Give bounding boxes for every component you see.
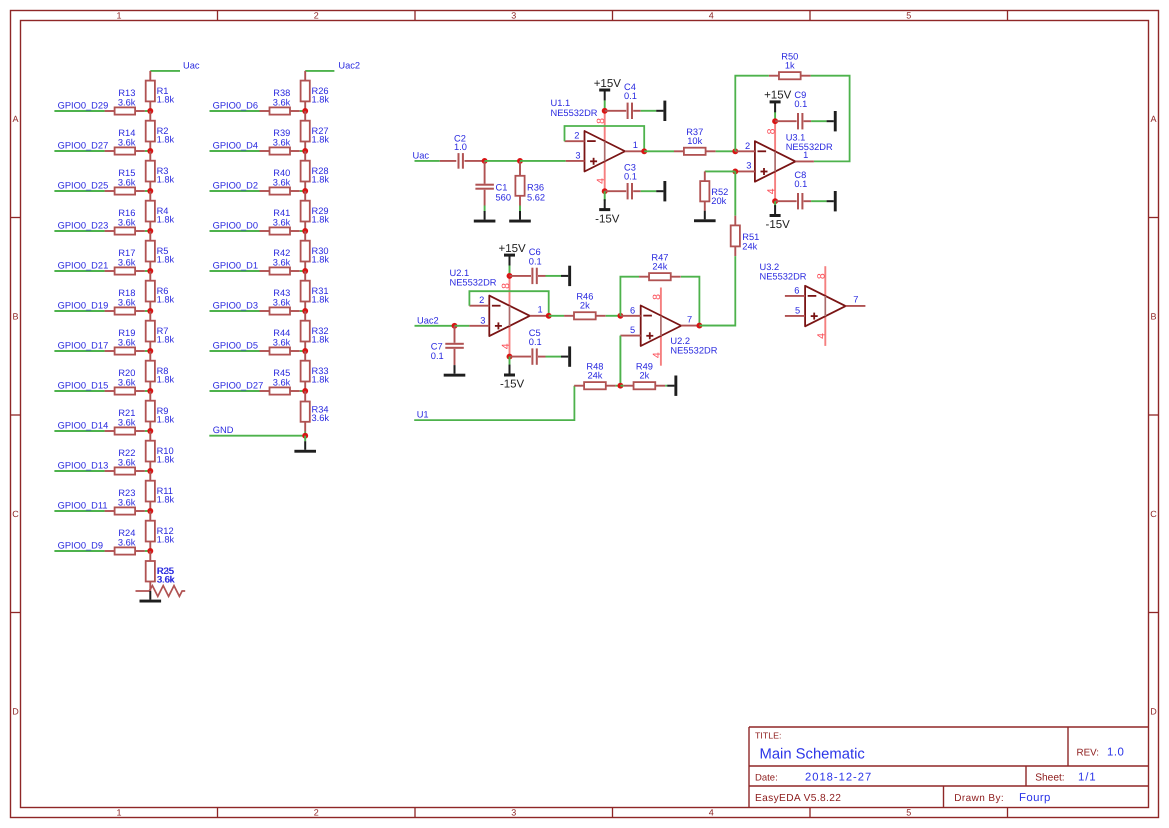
ground: [444, 365, 466, 377]
svg-text:5: 5: [906, 10, 911, 20]
ground: [827, 191, 837, 211]
pin 2 of U1.1 with feedback wire: [565, 131, 585, 142]
net label GPIO0_D27: [210, 380, 264, 391]
junction node GPIO0_D19: [147, 308, 153, 314]
wire: [665, 385, 667, 387]
svg-text:5: 5: [630, 325, 635, 335]
wire: [620, 385, 623, 387]
net label GPIO0_D3: [210, 300, 260, 311]
svg-text:1.8k: 1.8k: [157, 455, 175, 465]
svg-text:1.8k: 1.8k: [157, 135, 175, 145]
svg-text:3.6k: 3.6k: [118, 218, 136, 228]
resistor R38 3.6k: [260, 88, 306, 114]
capacitor C8 0.1: [775, 170, 811, 210]
wire: [520, 160, 566, 162]
junction node (U2.1 pin4): [507, 354, 513, 360]
resistor R34 3.6k: [301, 391, 330, 432]
svg-text:3.6k: 3.6k: [118, 98, 136, 108]
svg-text:7: 7: [853, 295, 858, 305]
junction node GPIO0_D13: [147, 468, 153, 474]
junction node GPIO0_D15: [147, 388, 153, 394]
resistor R36 5.62: [515, 161, 545, 206]
net label GPIO0_D15: [54, 380, 108, 391]
resistor R47 24k: [639, 253, 681, 281]
svg-text:20k: 20k: [711, 196, 726, 206]
svg-text:3.6k: 3.6k: [118, 538, 136, 548]
svg-text:U2.2: U2.2: [670, 336, 690, 346]
wire: [811, 120, 827, 122]
svg-text:6: 6: [794, 285, 799, 295]
power +15V: [764, 90, 792, 113]
svg-text:1.8k: 1.8k: [312, 295, 330, 305]
svg-text:3.6k: 3.6k: [118, 418, 136, 428]
svg-text:Uac2: Uac2: [338, 61, 360, 71]
svg-text:3.6k: 3.6k: [118, 138, 136, 148]
resistor R25 3.6k: [146, 551, 175, 591]
wire: [774, 111, 776, 122]
resistor R24 3.6k: [105, 528, 151, 554]
wire: [616, 385, 621, 387]
resistor R23 3.6k: [105, 488, 151, 514]
label U1.1 NE5532DR: [551, 98, 598, 118]
wire (R47 feedback left): [620, 277, 639, 316]
junction node (U2.2 pin6): [617, 313, 623, 319]
svg-text:D: D: [1150, 707, 1157, 717]
resistor R4 1.8k: [146, 191, 175, 231]
capacitor C6 0.1: [510, 247, 546, 284]
svg-text:1: 1: [803, 150, 808, 160]
resistor R21 3.6k: [105, 408, 151, 434]
ground: [694, 211, 716, 223]
svg-text:GPIO0_D13: GPIO0_D13: [58, 460, 109, 470]
op-amp U2.1: [489, 296, 530, 337]
svg-text:1.8k: 1.8k: [312, 94, 330, 104]
svg-text:GPIO0_D14: GPIO0_D14: [58, 420, 109, 430]
wire: [619, 336, 621, 386]
svg-text:A: A: [1150, 114, 1156, 124]
junction node GPIO0_D9: [147, 548, 153, 554]
ground: [561, 266, 571, 286]
svg-text:3.6k: 3.6k: [273, 178, 291, 188]
junction node (U3.1 pin3): [732, 168, 738, 174]
svg-text:1.8k: 1.8k: [157, 375, 175, 385]
net label GPIO0_D2: [210, 180, 260, 191]
resistor R13 3.6k: [105, 88, 151, 114]
resistor R44 3.6k: [260, 328, 306, 354]
svg-text:1.8k: 1.8k: [157, 295, 175, 305]
svg-text:U3.1: U3.1: [786, 133, 806, 143]
resistor R35 3.6k (zigzag, overlapping): [136, 566, 186, 597]
svg-text:GPIO0_D1: GPIO0_D1: [213, 260, 258, 270]
wire: [455, 325, 470, 327]
svg-text:NE5532DR: NE5532DR: [760, 271, 807, 281]
wire: [641, 110, 657, 112]
resistor R5 1.8k: [146, 231, 175, 271]
ground: [667, 376, 677, 396]
ground: [656, 181, 666, 201]
ground: [656, 101, 666, 121]
svg-text:NE5532DR: NE5532DR: [450, 278, 497, 288]
svg-text:EasyEDA V5.8.22: EasyEDA V5.8.22: [755, 793, 841, 804]
svg-text:1: 1: [116, 10, 121, 20]
wire: [734, 171, 736, 215]
svg-text:GPIO0_D17: GPIO0_D17: [58, 340, 109, 350]
svg-text:2k: 2k: [639, 371, 649, 381]
capacitor C9 0.1: [775, 90, 811, 130]
svg-text:6: 6: [630, 305, 635, 315]
svg-text:3.6k: 3.6k: [273, 98, 291, 108]
wire (R47 feedback right): [681, 277, 700, 326]
svg-text:1.8k: 1.8k: [157, 335, 175, 345]
svg-text:8: 8: [651, 294, 663, 300]
resistor R41 3.6k: [260, 208, 306, 234]
net label GPIO0_D9: [54, 540, 104, 551]
resistor R42 3.6k: [260, 248, 306, 274]
capacitor C2 1.0: [440, 133, 485, 168]
resistor R48 24k: [574, 362, 616, 390]
junction node GPIO0_D1: [302, 268, 308, 274]
svg-text:+15V: +15V: [764, 90, 792, 102]
junction node GPIO0_D3: [302, 308, 308, 314]
junction node (U2.1 output): [546, 313, 552, 319]
wire: [641, 190, 657, 192]
wire (R50 feedback right): [811, 76, 850, 162]
wire: [699, 256, 735, 326]
power +15V: [499, 243, 527, 266]
svg-text:Uac: Uac: [413, 150, 430, 160]
resistor R40 3.6k: [260, 168, 306, 194]
wire: [304, 432, 306, 436]
junction node GPIO0_D14: [147, 428, 153, 434]
svg-text:5.62: 5.62: [527, 192, 545, 202]
svg-text:+15V: +15V: [499, 243, 527, 255]
svg-text:1: 1: [116, 808, 121, 818]
op-amp U1.1: [585, 131, 626, 172]
svg-text:10k: 10k: [687, 136, 702, 146]
svg-text:8: 8: [816, 273, 828, 279]
net label Uac2 (column 2 top): [305, 61, 360, 71]
svg-text:B: B: [12, 312, 18, 322]
svg-text:4: 4: [816, 333, 828, 339]
svg-text:8: 8: [595, 118, 607, 124]
svg-text:2: 2: [745, 141, 750, 151]
resistor R31 1.8k: [301, 271, 330, 311]
resistor R2 1.8k: [146, 111, 175, 151]
net label GPIO0_D17: [54, 340, 108, 351]
svg-text:GPIO0_D27: GPIO0_D27: [213, 380, 264, 390]
svg-text:560: 560: [496, 192, 512, 202]
svg-text:3.6k: 3.6k: [118, 178, 136, 188]
label U3.1 NE5532DR: [786, 133, 833, 153]
svg-text:Main Schematic: Main Schematic: [760, 747, 866, 763]
wire: [509, 357, 511, 367]
title block text REV: [1077, 747, 1125, 759]
svg-text:GPIO0_D0: GPIO0_D0: [213, 220, 258, 230]
capacitor C5 0.1: [510, 328, 546, 365]
net label GPIO0_D23: [54, 220, 108, 231]
power pin 8 of U2.1: [509, 276, 511, 306]
svg-text:3.6k: 3.6k: [118, 258, 136, 268]
svg-text:2018-12-27: 2018-12-27: [805, 771, 872, 783]
resistor R22 3.6k: [105, 448, 151, 474]
svg-text:1.8k: 1.8k: [157, 255, 175, 265]
junction node (U3.1 pin2): [732, 148, 738, 154]
pin 6 of U3.2: [785, 285, 805, 296]
resistor R14 3.6k: [105, 128, 151, 154]
svg-text:1.8k: 1.8k: [312, 335, 330, 345]
svg-text:3: 3: [746, 161, 751, 171]
pin 3 of U1.1: [566, 150, 585, 161]
svg-text:1.8k: 1.8k: [312, 215, 330, 225]
net label GPIO0_D1: [210, 260, 260, 271]
ground: [140, 591, 162, 603]
power pin 4 of U2.1: [509, 326, 511, 356]
junction node (Uac2/C7): [452, 323, 458, 329]
svg-text:1: 1: [538, 305, 543, 315]
net label U1: [414, 386, 574, 420]
svg-text:Fourp: Fourp: [1019, 792, 1051, 804]
pin 5 of U3.2: [785, 305, 805, 316]
pin 3 of U3.1: [735, 161, 755, 172]
resistor R39 3.6k: [260, 128, 306, 154]
svg-text:GND: GND: [213, 425, 234, 435]
junction node (U1.1 output): [641, 148, 647, 154]
junction node (R36): [517, 158, 523, 164]
svg-text:GPIO0_D3: GPIO0_D3: [213, 300, 258, 310]
wire: [549, 315, 564, 317]
svg-text:3.6k: 3.6k: [273, 338, 291, 348]
capacitor C4 0.1: [605, 82, 641, 119]
wire: [811, 200, 827, 202]
svg-text:GPIO0_D25: GPIO0_D25: [58, 180, 109, 190]
label U2.1 NE5532DR: [450, 268, 497, 288]
svg-text:24k: 24k: [652, 262, 667, 272]
svg-text:0.1: 0.1: [624, 172, 637, 182]
pin 1 of U3.1 (output): [795, 150, 814, 161]
capacitor C7 0.1: [431, 326, 464, 365]
svg-text:GPIO0_D6: GPIO0_D6: [213, 100, 258, 110]
resistor R12 1.8k: [146, 511, 175, 551]
svg-text:TITLE:: TITLE:: [755, 731, 781, 741]
ground: [561, 346, 571, 366]
power -15V: [595, 199, 620, 225]
junction node (C1/R36 input): [482, 158, 488, 164]
svg-text:NE5532DR: NE5532DR: [786, 142, 833, 152]
svg-text:C: C: [12, 509, 19, 519]
svg-text:3.6k: 3.6k: [118, 378, 136, 388]
junction node GPIO0_D27: [302, 388, 308, 394]
pin 1 of U2.1 (output): [530, 305, 549, 316]
junction node (R48/R49/pin5): [617, 383, 623, 389]
svg-text:4: 4: [709, 808, 714, 818]
resistor R46 2k: [564, 292, 606, 320]
svg-text:4: 4: [651, 352, 663, 358]
net label GPIO0_D0: [210, 220, 260, 231]
net label GPIO0_D14: [54, 420, 108, 431]
wire: [546, 356, 562, 358]
svg-text:3: 3: [480, 315, 485, 325]
svg-text:1.8k: 1.8k: [157, 215, 175, 225]
svg-text:3.6k: 3.6k: [118, 458, 136, 468]
svg-text:R36: R36: [527, 182, 544, 192]
pin 7 of U2.2 (output): [681, 315, 699, 326]
svg-text:1.8k: 1.8k: [157, 175, 175, 185]
svg-text:2k: 2k: [580, 301, 590, 311]
svg-text:Date:: Date:: [755, 772, 778, 783]
wire: [519, 206, 521, 212]
pin 2 of U3.1: [735, 141, 755, 152]
resistor R52 20k: [700, 171, 728, 210]
svg-text:NE5532DR: NE5532DR: [551, 108, 598, 118]
net label GPIO0_D5: [210, 340, 260, 351]
junction node GND: [302, 433, 308, 439]
svg-text:GPIO0_D11: GPIO0_D11: [58, 500, 108, 510]
svg-text:1.8k: 1.8k: [312, 375, 330, 385]
net label GPIO0_D13: [54, 460, 108, 471]
title block: [749, 727, 1149, 808]
svg-text:4: 4: [709, 10, 714, 20]
wire: [716, 150, 736, 152]
resistor R11 1.8k: [146, 471, 175, 511]
pin 5 of U2.2: [620, 325, 640, 336]
op-amp U3.2: [805, 286, 846, 327]
junction node GPIO0_D6: [302, 108, 308, 114]
svg-text:0.1: 0.1: [529, 256, 542, 266]
power pin 4 of U1.1: [604, 162, 606, 192]
power pin 4 of U3.2: [824, 316, 826, 346]
svg-text:1.8k: 1.8k: [157, 535, 175, 545]
svg-text:1.0: 1.0: [454, 142, 467, 152]
wire: [774, 201, 776, 207]
svg-text:GPIO0_D21: GPIO0_D21: [58, 260, 109, 270]
svg-text:1.8k: 1.8k: [312, 135, 330, 145]
net label GPIO0_D29: [54, 100, 108, 111]
svg-text:1.0: 1.0: [1107, 747, 1124, 759]
svg-text:0.1: 0.1: [794, 99, 807, 109]
svg-text:24k: 24k: [587, 371, 602, 381]
wire: [699, 325, 735, 327]
resistor R51 24k: [731, 216, 760, 256]
svg-text:GPIO0_D29: GPIO0_D29: [58, 100, 109, 110]
svg-text:-15V: -15V: [595, 213, 620, 225]
svg-text:1.8k: 1.8k: [157, 94, 175, 104]
junction node GPIO0_D27: [147, 148, 153, 154]
power pin 8 of U2.2: [660, 288, 662, 317]
resistor R20 3.6k: [105, 368, 151, 394]
net label Uac (column 1 top): [150, 61, 200, 71]
resistor R43 3.6k: [260, 288, 306, 314]
junction node GPIO0_D23: [147, 228, 153, 234]
svg-text:7: 7: [687, 315, 692, 325]
junction node (U1.1 pin4): [602, 188, 608, 194]
junction node (U3.1 pin4): [772, 198, 778, 204]
svg-text:1k: 1k: [785, 61, 795, 71]
wire: [604, 191, 606, 201]
svg-text:U3.2: U3.2: [760, 262, 780, 272]
svg-text:GPIO0_D2: GPIO0_D2: [213, 180, 258, 190]
junction node GPIO0_D17: [147, 348, 153, 354]
svg-text:24k: 24k: [742, 242, 757, 252]
resistor R49 2k: [624, 362, 666, 390]
svg-text:GPIO0_D19: GPIO0_D19: [58, 300, 109, 310]
junction node GPIO0_D0: [302, 228, 308, 234]
svg-text:GPIO0_D27: GPIO0_D27: [58, 140, 109, 150]
ground: [294, 441, 316, 452]
resistor R3 1.8k: [146, 151, 175, 191]
svg-text:+15V: +15V: [594, 78, 622, 90]
resistor R45 3.6k: [260, 368, 306, 394]
svg-text:D: D: [12, 707, 19, 717]
svg-text:Uac2: Uac2: [417, 315, 439, 325]
junction node GPIO0_D29: [147, 108, 153, 114]
wire: [546, 275, 562, 277]
net label Uac2 (amp input): [415, 315, 455, 326]
svg-text:3.6k: 3.6k: [273, 378, 291, 388]
svg-text:C1: C1: [496, 182, 508, 192]
svg-text:-15V: -15V: [500, 379, 525, 391]
power +15V: [594, 78, 622, 101]
svg-text:3.6k: 3.6k: [157, 574, 175, 584]
svg-text:GPIO0_D5: GPIO0_D5: [213, 340, 258, 350]
svg-text:3.6k: 3.6k: [273, 298, 291, 308]
pin 6 of U2.2: [620, 305, 640, 316]
svg-text:3: 3: [575, 150, 580, 160]
svg-text:3.6k: 3.6k: [312, 413, 330, 423]
resistor R10 1.8k: [146, 431, 175, 471]
svg-text:4: 4: [500, 343, 512, 349]
svg-text:2: 2: [314, 808, 319, 818]
svg-text:C: C: [1150, 509, 1157, 519]
resistor R26 1.8k: [301, 71, 330, 111]
net label GPIO0_D4: [210, 140, 260, 151]
wire: [484, 206, 486, 212]
wire: [606, 315, 621, 317]
capacitor C1 560: [475, 161, 511, 206]
title block text Drawn By: [954, 792, 1050, 804]
svg-text:U1: U1: [417, 409, 429, 419]
svg-text:GPIO0_D9: GPIO0_D9: [58, 540, 103, 550]
resistor R1 1.8k: [146, 71, 175, 111]
svg-text:0.1: 0.1: [529, 337, 542, 347]
power pin 8 of U1.1: [604, 111, 606, 141]
junction node (U3.1 pin8): [772, 118, 778, 124]
svg-text:3.6k: 3.6k: [118, 498, 136, 508]
svg-text:U1.1: U1.1: [551, 98, 571, 108]
svg-text:-15V: -15V: [766, 219, 791, 231]
svg-text:4: 4: [595, 178, 607, 184]
svg-text:1.8k: 1.8k: [312, 175, 330, 185]
net label GPIO0_D27: [54, 140, 108, 151]
wire (R50 feedback left): [735, 76, 769, 152]
svg-text:4: 4: [765, 188, 777, 194]
svg-text:3.6k: 3.6k: [273, 218, 291, 228]
power pin 4 of U2.2: [660, 336, 662, 366]
wire: [509, 265, 511, 276]
label U3.2 NE5532DR: [760, 262, 807, 282]
svg-text:REV:: REV:: [1077, 748, 1100, 759]
resistor R17 3.6k: [105, 248, 151, 274]
wire: [485, 160, 520, 162]
power pin 8 of U3.2: [824, 266, 826, 296]
svg-text:3: 3: [511, 10, 516, 20]
label U2.2 NE5532DR: [670, 336, 717, 356]
svg-text:3: 3: [511, 808, 516, 818]
junction node GPIO0_D11: [147, 508, 153, 514]
svg-text:Uac: Uac: [183, 61, 200, 71]
svg-text:2: 2: [479, 295, 484, 305]
resistor R28 1.8k: [301, 151, 330, 191]
svg-text:1/1: 1/1: [1078, 772, 1096, 784]
